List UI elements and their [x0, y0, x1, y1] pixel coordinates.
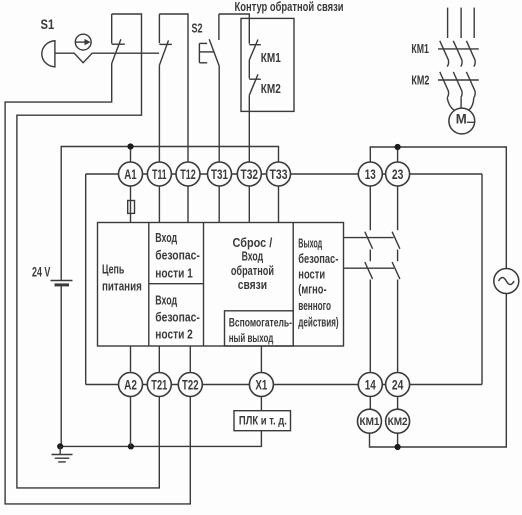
contactor KM2 main contacts [438, 72, 479, 98]
svg-text:КМ2: КМ2 [261, 81, 281, 96]
compartment divider 3 [292, 223, 294, 347]
svg-text:M: M [456, 111, 467, 127]
terminal 14 [358, 373, 382, 397]
svg-text:Цепь: Цепь [102, 262, 124, 277]
wire: A2 drop [130, 396, 132, 446]
svg-text:венного: венного [298, 299, 331, 313]
svg-text:A2: A2 [124, 378, 137, 393]
svg-text:X1: X1 [255, 378, 267, 393]
feedback loop box [241, 18, 294, 111]
wire: safety output drive link 2 [344, 267, 395, 269]
wire: T21 stub from relay box [158, 346, 160, 373]
junction: A1 to 24V bus [127, 143, 133, 149]
terminal 24 [386, 373, 410, 397]
svg-text:питания: питания [102, 279, 142, 294]
pushbutton S2 (reset, NO) [199, 14, 219, 66]
motor M [449, 108, 475, 134]
svg-text:(мгно-: (мгно- [298, 283, 326, 297]
fuse F1 [128, 201, 135, 214]
svg-text:безопас-: безопас- [155, 310, 200, 325]
wire: T31 leg up to S2 [218, 66, 220, 223]
auxiliary output box [225, 311, 294, 346]
wire: row2 terminal bus [86, 384, 482, 386]
terminal T31 [208, 162, 232, 186]
wire: T12 leg up and over to S1 contact 2 top [159, 14, 188, 223]
relay contact 13-14 [365, 186, 373, 410]
svg-text:T21: T21 [151, 378, 167, 393]
svg-text:S1: S1 [41, 16, 55, 32]
terminal T11 [147, 162, 171, 186]
wire: left bracket joining row1 and row2 [85, 174, 87, 385]
compartment divider 2 [203, 223, 205, 347]
svg-text:ности 2: ности 2 [155, 327, 193, 342]
svg-text:КМ2: КМ2 [388, 416, 408, 428]
terminal T32 [237, 162, 261, 186]
wire: top-right bus to AC source [370, 147, 506, 269]
compartment divider 1 [148, 223, 150, 347]
S1 NC contact 2 [159, 14, 172, 65]
wire: S2 top bar into feedback loop [219, 14, 249, 44]
wire: T11 leg up to S1 contact 2 [158, 65, 160, 222]
contactor KM1 main contacts [438, 41, 479, 67]
node: 24V supply bus [61, 147, 278, 281]
junction: A2 to ground rail [128, 443, 134, 449]
wire: ground rail [60, 431, 261, 447]
contactor coil KM1 [358, 409, 382, 433]
svg-text:связи: связи [238, 277, 267, 292]
wire: safety output drive link 1 [344, 237, 394, 239]
svg-text:обратной: обратной [231, 263, 274, 278]
wire: KM2 coil bottom [397, 433, 399, 447]
wire: A2 stub from relay box [130, 346, 132, 373]
junction: battery to ground rail [57, 443, 63, 449]
wire: right loop joining 23 and 24 rows [481, 174, 483, 385]
svg-text:безопас-: безопас- [298, 252, 338, 266]
svg-text:T33: T33 [270, 167, 288, 182]
wire: 23 stub up [397, 147, 399, 163]
S1 NC contact 1 [112, 14, 125, 64]
terminal 23 [386, 162, 410, 186]
relay contact 23-24 [392, 186, 400, 410]
svg-text:T22: T22 [182, 378, 199, 393]
svg-text:Вход: Вход [155, 230, 177, 245]
contactor coil KM2 [386, 409, 410, 433]
svg-text:T11: T11 [152, 167, 167, 182]
wire: A1 drop through fuse [130, 147, 132, 223]
svg-text:ности: ности [298, 268, 325, 282]
AC source [494, 269, 519, 294]
terminal T33 [267, 162, 291, 186]
svg-text:КМ1: КМ1 [360, 416, 380, 428]
wire: X1 drop to PLC [260, 396, 262, 411]
svg-text:КМ1: КМ1 [411, 41, 429, 56]
svg-text:13: 13 [365, 167, 376, 182]
terminal X1 [249, 373, 273, 397]
wire: X1 stub from auxiliary output [260, 346, 262, 373]
svg-text:14: 14 [365, 378, 376, 393]
wire: S1 contact1 top bar to T21 loop [17, 14, 159, 488]
terminal T12 [176, 162, 200, 186]
svg-text:T31: T31 [211, 167, 228, 182]
three-phase supply lines [448, 8, 475, 38]
S1 mechanical linkage [55, 53, 159, 63]
svg-text:Вход: Вход [242, 249, 264, 264]
svg-text:24 V: 24 V [32, 264, 51, 280]
NC contact KM2 (feedback) [249, 74, 260, 95]
svg-text:24: 24 [392, 378, 404, 393]
svg-text:23: 23 [392, 167, 404, 182]
PLC box [234, 411, 291, 431]
wire: KM coil bottoms to AC return [370, 294, 507, 448]
svg-text:Выход: Выход [298, 237, 322, 251]
wire: T33 stub into relay box [278, 186, 280, 223]
svg-text:T12: T12 [180, 167, 196, 182]
ground [52, 446, 73, 462]
svg-text:ности 1: ности 1 [155, 266, 193, 281]
svg-text:A1: A1 [124, 167, 137, 182]
svg-text:Вспомогатель-: Вспомогатель- [229, 315, 292, 329]
wire: T22 stub from relay box [189, 346, 191, 373]
battery 24V [51, 281, 73, 447]
safety relay unit box [98, 223, 344, 347]
svg-text:S2: S2 [192, 21, 203, 36]
wire: motor leads [447, 98, 474, 111]
terminal A2 [119, 373, 143, 397]
svg-text:действия): действия) [298, 316, 338, 330]
junction: KM2 to AC return [395, 444, 401, 450]
junction: 23 to top-right bus [395, 144, 401, 150]
svg-text:ПЛК и т. д.: ПЛК и т. д. [239, 414, 287, 428]
svg-text:Вход: Вход [155, 293, 177, 308]
terminal A1 [119, 162, 143, 186]
NC contact KM1 (feedback) [249, 40, 260, 79]
svg-text:ный выход: ный выход [229, 331, 274, 345]
divider between safety input 1 and 2 [149, 283, 204, 285]
S1 direct opening action symbol [75, 34, 91, 50]
svg-text:T32: T32 [241, 167, 259, 182]
wire: row1 terminal bus [86, 173, 482, 175]
svg-text:Контур обратной связи: Контур обратной связи [235, 0, 344, 14]
terminal 13 [358, 162, 382, 186]
wire: S1 contact1 bottom to T22 loop [5, 64, 190, 504]
svg-text:КМ2: КМ2 [411, 73, 429, 88]
svg-text:безопас-: безопас- [155, 248, 200, 263]
wire: T32 leg up to feedback loop [248, 95, 250, 222]
terminal T22 [178, 373, 202, 397]
terminal T21 [147, 373, 171, 397]
pushbutton S1 head (emergency stop) [42, 41, 55, 67]
svg-text:КМ1: КМ1 [261, 50, 281, 65]
